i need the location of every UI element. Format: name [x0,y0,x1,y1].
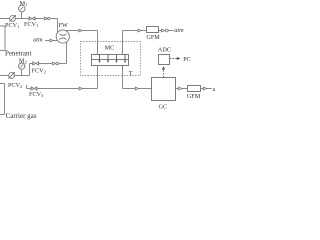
svg-text:FCV1: FCV1 [24,21,39,28]
svg-text:PCV2: PCV2 [8,82,23,89]
svg-text:atm: atm [213,86,216,93]
svg-text:ADC: ADC [158,46,171,53]
svg-text:M2: M2 [19,57,28,64]
svg-text:Carrier gas: Carrier gas [6,112,37,120]
svg-text:M1: M1 [20,0,29,7]
svg-text:PC: PC [183,56,191,63]
svg-text:GFM: GFM [146,34,160,41]
svg-text:FW: FW [59,22,68,29]
svg-text:GC: GC [159,104,168,111]
svg-text:FCV3: FCV3 [29,91,44,98]
svg-text:GFM: GFM [187,93,201,100]
svg-text:PCV1: PCV1 [5,22,20,29]
svg-text:MC: MC [105,44,115,51]
svg-text:FCV2: FCV2 [32,67,47,74]
svg-text:Penetrant: Penetrant [5,50,31,58]
svg-text:atm: atm [174,27,184,34]
svg-text:atm: atm [33,36,43,43]
svg-text:T: T [129,70,133,77]
